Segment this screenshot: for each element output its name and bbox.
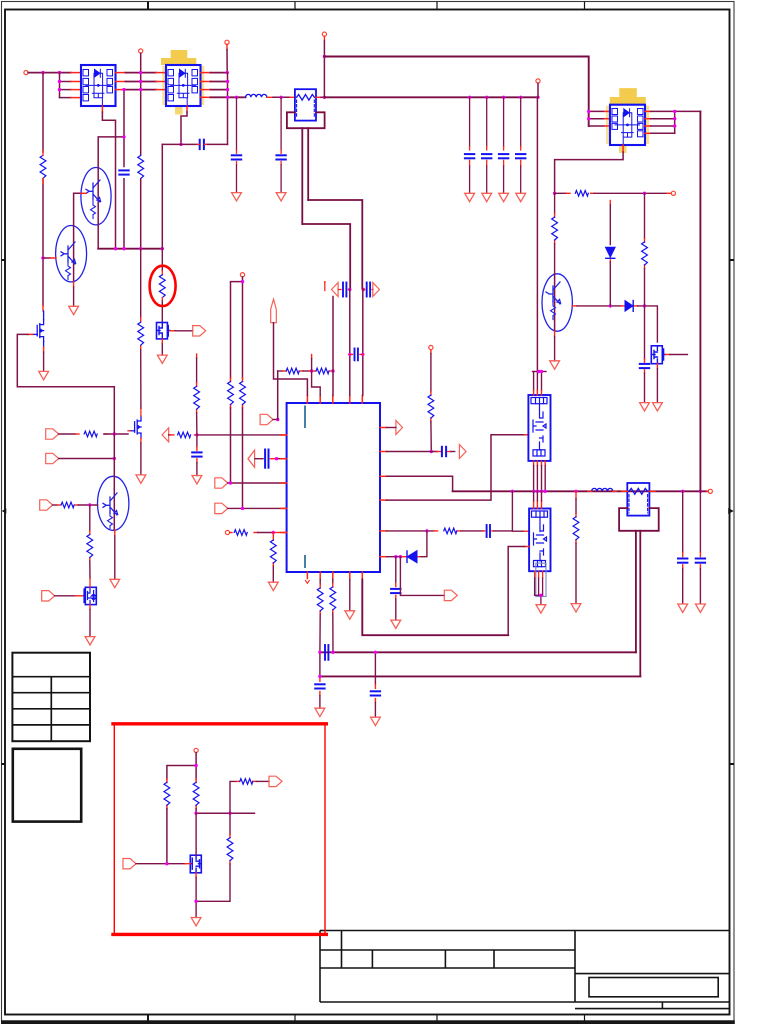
node dot A16 [536,96,539,99]
wire ic pin5 row635 [362,580,508,636]
ground for cap x236 [232,193,242,201]
terminal T3 [536,79,540,83]
wire row476 to bus [387,476,453,491]
zone tick bottom 1 [147,1015,149,1021]
resistor R7 [178,432,191,438]
ground Q10 [191,918,201,926]
highlight glow M3 [606,88,649,153]
ground C4 [516,193,526,201]
wire port row 483 [228,482,287,484]
node dot F4 [673,117,676,120]
wire P2 row [59,458,115,460]
capacitor C15 [678,559,687,563]
terminal T11 [225,40,229,44]
chain x375 cap-gnd [374,652,376,717]
wire row652 [320,651,636,653]
pin stubs M2 left [156,73,166,90]
wire up-arrow to pin1 [274,323,308,396]
Q8 gate wire [665,354,687,356]
mosfet module M2 [166,65,201,106]
Q7 base row 306 [572,306,657,342]
capacitor C9 [343,283,346,297]
capacitor C11 bridge [355,349,358,361]
stub R1 ends [42,150,44,184]
mosfet module Q10 [190,855,201,873]
node dot D5 [362,288,365,291]
wire jog row y144 [162,143,227,145]
node dot D3 [331,369,334,372]
ground Q6 [136,475,146,483]
Q2 emitter wire [73,282,75,306]
node dot A1 [41,71,44,74]
port P5 [260,414,273,424]
chain x682 cap-gnd [682,491,684,603]
wire row y371 [278,370,333,372]
terminal T2 [139,49,143,53]
ground Q8 [653,403,663,411]
ground Q7 [550,361,560,369]
transistor Q2 [56,226,87,282]
node dot B3 [122,88,125,91]
diode D4 [606,248,615,259]
ground C20 [371,717,381,725]
Q5 source to ground [161,339,163,355]
wire Q3 base row [53,504,98,506]
ic U1 right pin stubs [380,428,387,557]
node dot B7 [139,247,142,250]
Q4 gate loop wire [17,334,114,386]
Q2 base wire [43,257,56,259]
node dot A10 [323,96,326,99]
zone tick left 1 [2,259,6,261]
resistor R4 [138,322,144,345]
resistor R15 [428,395,434,418]
Q3 emitter to ground [114,530,116,579]
wire left pin bus M1 [60,73,72,98]
ic U1 left pin stubs [281,435,287,533]
vert x349.8 pin4 [349,289,351,396]
node dot C8 [241,507,244,510]
F1 sense loop [287,112,362,289]
M5 bottom sense [535,563,546,604]
terminal T1 [24,71,28,75]
wire M3 left bus [589,111,610,126]
wire circle-res row 532 [230,532,287,534]
node dot E4 [399,555,402,558]
zone tick right 2 [730,763,735,765]
ic pin4 ground [349,580,351,611]
node dot B5 [114,247,117,250]
node dot E6 [540,370,543,373]
node dot E7 [539,594,542,597]
node dot F3 [673,110,676,113]
ground R12 [268,582,278,590]
center arrow right edge [728,508,734,514]
ground C1 [465,193,475,201]
Q10 source chain [195,873,197,918]
wire P1 row [59,433,128,435]
stub L1 right [267,96,273,98]
node dot E5 [537,370,540,373]
chain x644 res-cap-gnd [644,193,646,402]
node dot B8 [161,247,164,250]
terminal T9 [225,530,229,534]
capacitor C10 [367,283,370,297]
pin stubs M2 right [201,73,211,98]
M4 bottom wires [534,461,546,491]
wire row451 [387,451,455,453]
node dot F5 [673,124,676,127]
dangling diode chain x610 [609,201,611,306]
node dot A6 [226,88,229,91]
annotation red ellipse [150,266,176,306]
fuse module F1 [295,89,316,120]
ic U1 top pin stubs [307,396,362,404]
capacitor C20 [371,691,380,695]
node dot A12 [468,96,471,99]
wire row530 RC chain [387,530,513,532]
mosfet module M1 [81,65,116,106]
node dot G2 [194,812,197,815]
diode D2 [625,301,633,312]
branch to port row781 [230,781,269,813]
M4 top feed bar [533,372,547,396]
zone tick left 2 [2,763,6,765]
TABLES [12,653,729,1009]
node dot B2 [179,143,182,146]
resistor R11 [234,530,247,536]
resistor R3 [84,431,97,437]
bulk cap C2 [482,97,491,193]
cap-gnd chain x395.8 [395,557,397,620]
chain x576 res-gnd [575,491,577,603]
wire pin to AR2 [387,427,396,429]
pin1 dangling mark [306,581,310,584]
netlabel arrow AL1 [332,283,339,297]
resistor R6 [87,535,93,558]
ground C18 [315,708,325,716]
fuse module F2 [627,483,649,516]
ground C14 [391,620,401,628]
ground Q2 [69,306,79,314]
resistor R14 [316,368,329,374]
port P2 [46,453,59,463]
terminal T10 [429,345,433,349]
ic pin3 chain [332,580,334,653]
subcircuit top wires [167,753,196,863]
terminal T8 [240,273,244,277]
node dot A18 [139,80,142,83]
netlabel arrow AR2 [396,421,403,435]
M1 pin3 branch x124 [98,90,124,249]
zone tick top 1 [147,2,149,10]
node dot F12 [331,651,334,654]
node dot F2 [587,117,590,120]
capacitor C17 [640,364,649,368]
node dot A9 [279,96,282,99]
sense pair wires [231,277,243,509]
Q10 drain wire [195,813,197,855]
port P8 [123,859,136,869]
port P1 [46,429,59,439]
capacitor C6 [119,170,128,174]
resistor R26 [227,838,233,861]
resistor R13 [286,368,299,374]
ground C15 [678,604,688,612]
stubs L2 [588,490,616,492]
capacitor C7 [192,452,201,456]
bottom black band [1,1020,735,1024]
node dot F9 [643,304,646,307]
node dot F13 [374,651,377,654]
inductor L2 [592,488,613,491]
capacitor C18 [315,684,324,688]
node dot A3 [58,80,61,83]
mosfet module M5 [529,509,550,572]
node dot A8 [235,96,238,99]
pin stubs M1 right [116,73,126,90]
netlabel arrow AR3 [459,445,466,459]
ground C3 [499,193,509,201]
ic U1 bottom pin stubs [307,572,362,580]
wire arrow-cap right pair [363,289,373,291]
transistor Q1 [81,168,111,249]
wire T3 down to M4 [536,83,539,371]
wire P5 to vert [273,419,278,421]
capacitor C8 tall [265,450,268,468]
stubs C11 [350,353,363,355]
M3 source pin path [555,145,624,193]
wire M5 gate link [512,491,529,531]
bus vertical x227 [227,73,229,145]
vertical bus x114 [113,387,115,477]
wire L1 to F1 [273,96,290,98]
wire P8 to gate [136,863,190,865]
wires M2 to bus [211,73,246,98]
Q6 source to ground [140,438,142,475]
phase wire y97 [324,96,538,98]
M5 second left pin wire [508,547,529,636]
vert x277.7 [277,371,279,420]
resistor R1 [40,155,46,178]
node dot C6 [241,280,244,283]
ic pin2 chain [319,580,321,709]
resistor R18 [575,191,588,197]
zone tick top 2 [294,2,296,10]
bus row y491.3 [453,490,707,492]
node dot A13 [485,96,488,99]
node dot E1 [430,450,433,453]
left bus x42.8 [42,73,44,306]
dangling pin tick [324,281,326,291]
ground C2 [482,193,492,201]
node dot G5 [194,900,197,903]
wire row193 [555,192,672,194]
pin2 jog wire [312,355,321,396]
branch resistor down [196,813,230,901]
port P9 [215,478,228,488]
Q7 collector chain [554,193,556,274]
ground Q9 [85,637,95,645]
wire T11 down [226,50,228,73]
zone tick bottom 3 [436,1015,438,1021]
transistor Q7 [542,274,572,331]
port P10 [215,503,228,513]
node dot A5 [226,80,229,83]
node dot F6 [553,192,556,195]
ground pin4 [345,611,355,619]
node dot A4 [58,88,61,91]
resistor R12 [270,540,276,563]
ground M5 [536,605,546,613]
Q1 base wire [74,193,86,225]
pin3 vert x333 [332,297,334,396]
bus row y248.7 [98,248,162,250]
chain x700 cap-gnd [699,491,701,603]
M5 top pin stubs [534,501,542,509]
zone tick right 1 [730,259,735,261]
resistor R25 [240,779,253,785]
resistor R24 [193,782,199,805]
wire row813 [196,812,254,814]
wire x400 to port [400,557,444,596]
port P7 [269,776,282,786]
node dot G4 [165,862,168,865]
node dot D7 [361,353,364,356]
node dot B6 [122,247,125,250]
wire zener row 556 [387,531,427,557]
M1 source pin path [102,106,115,249]
wire T4 down [323,41,325,97]
capacitor C14 [391,589,400,593]
wire P4 to Q9 gate [55,595,83,597]
wires M1 to M2 [126,73,157,90]
ground Q4 [39,371,49,379]
mosfet module Q5 [157,323,171,339]
M2 drain pin path [181,106,187,144]
node dot C9 [272,531,275,534]
filter cap branch x281 [276,97,285,192]
mosfet Q6 [128,408,141,438]
mosfet module M4 [528,395,550,461]
zone tick bottom 4 [584,1015,586,1021]
Q7 emitter to ground [554,331,556,361]
stub F1 left [290,96,295,98]
node dot A14 [502,96,505,99]
wire top rail y56 [324,57,588,127]
wire arrow-cap row 458.7 [255,458,287,460]
resistor R20 [642,242,648,265]
netlabel arrow AL2 [248,450,255,467]
mosfet module Q8 [651,346,665,364]
terminal T6 [671,191,675,195]
pulldown chain x273 [272,533,274,583]
node dot C3 [88,503,91,506]
terminal T4 [322,32,326,36]
Q5 gate wire [170,330,193,332]
inductor L1 [246,94,267,97]
resistor R5 [61,502,74,508]
capacitor C12 [442,447,446,456]
node dot G3 [228,812,231,815]
zone tick bottom 2 [294,1015,296,1021]
netlabel arrow AR1 [373,283,380,297]
node dot D6 [348,353,351,356]
node dot A11 [323,55,326,58]
M5 top wires [534,491,542,501]
node dot G1 [194,764,197,767]
port P11 [193,326,206,336]
Q8 source to ground [656,364,658,403]
node dot A7 [226,96,229,99]
node dot A20 [226,71,229,74]
resistor R16 [444,528,457,534]
wire arrow-cap left pair [338,289,350,291]
resistor R23 [164,782,170,805]
ground for cap x281 [276,193,286,201]
node dot B1 [41,256,44,259]
capacitor C13 [487,525,490,537]
pin stubs M1 left [71,73,81,98]
node dot A19 [139,88,142,91]
red circled resistor chain x162 [159,144,165,322]
netlabel arrow AL3 [162,428,169,442]
node dot C5 [275,457,278,460]
resistor R17 [573,517,579,540]
bulk cap C3 [499,97,508,193]
title block [320,931,730,1009]
port P3 [40,500,53,510]
logo box [13,749,81,822]
node dot D1 [276,418,279,421]
capacitor C19 bridge [325,645,328,660]
node dot D4 [348,288,351,291]
stub T11 [226,45,228,50]
highlight glow M2 [161,50,204,115]
Q9 source to ground [89,605,91,637]
ground Q5 [157,355,167,363]
resistor R21 [317,588,323,611]
node dots bus491 [511,490,514,493]
node dot E2 [425,529,428,532]
ground C7 [192,476,202,484]
zone tick top 4 [584,2,586,10]
vert x362.8 pin5 [362,289,364,396]
node dot A17 [139,71,142,74]
capacitor C16 [696,559,705,563]
ground C16 [696,604,706,612]
ground C17 [640,403,650,411]
ground Q3 [110,579,120,587]
resistor R8 [194,386,200,409]
F2 sense loop [619,508,659,676]
bulk cap C4 [516,97,525,193]
node dot C4 [195,433,198,436]
wire right vertical x700 [699,111,701,491]
ic U1 [287,403,380,572]
revision table [12,653,90,742]
stub C5 [197,143,206,145]
stubs F2 [622,490,656,492]
node dot B4 [122,135,125,138]
snubber cap branch x236 [232,97,241,192]
node dot F7 [643,192,646,195]
stub T4 [323,36,325,41]
dangling RC chain x196 [196,354,198,476]
zone tick top 3 [436,2,438,10]
stub F1 right [316,96,321,98]
node dot F11 [318,675,321,678]
